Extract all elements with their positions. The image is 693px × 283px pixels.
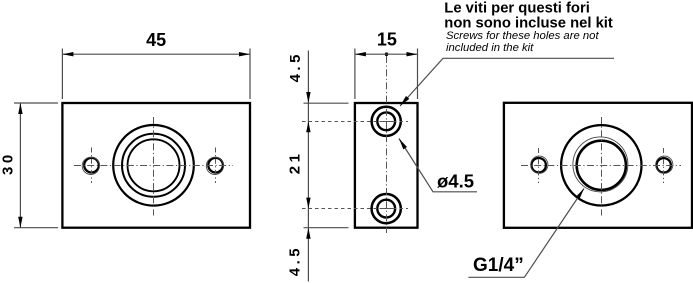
dim 30 bottom extension line xyxy=(14,227,58,229)
left view port middle circle xyxy=(122,134,185,197)
right view right screw hole thread circle xyxy=(656,156,673,173)
middle view bottom hole outer circle xyxy=(372,194,401,223)
svg-text:45: 45 xyxy=(146,30,166,50)
left view vertical centerline of port xyxy=(153,117,155,216)
note leader polyline xyxy=(400,58,614,106)
left view right screw hole thread circle xyxy=(206,157,223,174)
dim 45 left arrowhead xyxy=(62,52,73,56)
left view port inner circle xyxy=(128,139,180,191)
middle view dim line center dot xyxy=(385,52,389,56)
middle view top hole inner circle xyxy=(377,112,395,130)
left view body outline xyxy=(62,103,250,228)
svg-text:ø4.5: ø4.5 xyxy=(437,171,474,192)
dim 15 dimension line xyxy=(355,53,418,55)
left view port outer circle xyxy=(113,125,194,206)
right view port outer circle xyxy=(561,125,641,205)
dim 30 dimension line xyxy=(19,103,21,228)
svg-text:30: 30 xyxy=(0,151,17,175)
right view left screw hole bold circle xyxy=(532,158,546,172)
stack arrowhead down to y=102 xyxy=(306,92,310,103)
svg-text:G1/4”: G1/4” xyxy=(473,255,524,276)
left view vertical centerline of right screw hole xyxy=(215,148,217,184)
dim 45 left extension line xyxy=(61,49,63,100)
label G1/4 leader polyline xyxy=(468,189,584,278)
stack dimension line xyxy=(307,51,309,282)
middle view top hole outer circle xyxy=(372,107,401,136)
stack arrowhead up to y=227 xyxy=(306,228,310,239)
left view left screw hole thread circle xyxy=(82,157,99,174)
svg-text:15: 15 xyxy=(377,30,397,50)
right view port thread thin circle xyxy=(573,137,628,192)
stack arrowhead down to y=208.5 xyxy=(306,198,310,209)
right view horizontal centerline xyxy=(521,165,681,167)
right view vertical centerline of left screw hole xyxy=(538,148,540,183)
note leader arrowhead xyxy=(400,96,409,106)
middle view top hole centerline xyxy=(302,121,408,123)
stack top extension line (y=102) xyxy=(304,102,349,104)
svg-text:21: 21 xyxy=(287,151,304,175)
svg-text:4.5: 4.5 xyxy=(287,51,304,82)
middle view vertical centerline xyxy=(386,56,388,233)
middle view bottom hole inner circle xyxy=(377,200,395,218)
dim 30 top extension line xyxy=(14,102,58,104)
right view right screw hole bold circle xyxy=(657,158,671,172)
right view vertical centerline of port xyxy=(601,117,603,216)
label G1/4 leader arrowhead xyxy=(576,189,584,200)
right view vertical centerline of right screw hole xyxy=(663,148,665,183)
label ø4.5 leader polyline xyxy=(399,139,477,192)
stack bottom extension line (y=227) xyxy=(304,227,349,229)
left view horizontal centerline xyxy=(74,165,233,167)
dim 15 right extension line xyxy=(417,49,419,100)
left view right screw hole bold circle xyxy=(208,158,223,173)
dim 45 dimension line xyxy=(62,53,250,55)
left view vertical centerline of left screw hole xyxy=(91,148,93,184)
dim 30 bottom arrowhead xyxy=(18,217,22,228)
middle view body outline xyxy=(355,103,418,228)
dim 45 right extension line xyxy=(249,49,251,100)
dim 30 top arrowhead xyxy=(18,103,22,114)
svg-text:Le viti per questi fori: Le viti per questi fori xyxy=(444,0,590,16)
middle view bottom hole centerline xyxy=(302,208,408,210)
right view left screw hole thread circle xyxy=(531,156,548,173)
left view left screw hole bold circle xyxy=(84,158,99,173)
dim 15 right arrowhead xyxy=(407,52,418,56)
dim 15 left extension line xyxy=(354,49,356,100)
svg-text:Screws for these holes are not: Screws for these holes are not xyxy=(446,30,599,42)
dim 15 left arrowhead xyxy=(355,52,366,56)
svg-text:included in the kit: included in the kit xyxy=(446,42,534,54)
right view body outline xyxy=(504,103,692,228)
right view port inner bold circle xyxy=(577,141,626,190)
label ø4.5 leader arrowhead xyxy=(399,139,407,150)
dim 45 right arrowhead xyxy=(239,52,250,56)
stack arrowhead up to y=121 xyxy=(306,121,310,132)
svg-text:4.5: 4.5 xyxy=(287,245,304,276)
